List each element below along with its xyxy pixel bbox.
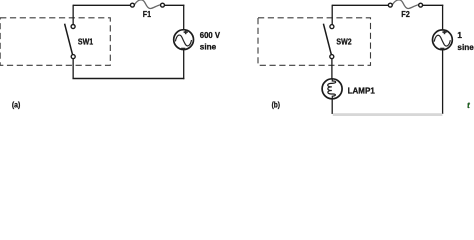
- lamp LAMP1 bulb circle: [322, 79, 342, 99]
- svg-text:F2: F2: [401, 9, 410, 19]
- dashed enclosure box (a): [0, 18, 110, 66]
- voltage source VG1 (600 V sine): [174, 30, 221, 52]
- source VG2 sine waveform symbol: [434, 35, 450, 46]
- wire top-left segment (a): [73, 4, 130, 6]
- wire right vertical to source top (a): [183, 5, 185, 30]
- wire SW2 bottom to lamp top: [331, 59, 333, 80]
- fuse F2 right terminal: [419, 3, 423, 7]
- wire bottom rail (a): [72, 78, 184, 80]
- switch SW2 blade (open): [323, 24, 331, 55]
- wire source bottom down to bottom (b): [442, 50, 444, 114]
- svg-text:sine: sine: [200, 42, 217, 52]
- fuse F1: [130, 0, 164, 19]
- switch SW2 bottom terminal: [330, 55, 334, 59]
- svg-text:(a): (a): [12, 100, 21, 109]
- wire right vertical to source top (b): [442, 5, 444, 31]
- source VG2 plus polarity mark: [442, 30, 446, 34]
- svg-text:(b): (b): [272, 100, 281, 109]
- svg-text:600 V: 600 V: [200, 30, 221, 40]
- wire lamp bottom down (b): [331, 99, 333, 114]
- wire top-right segment (a): [165, 4, 185, 6]
- svg-text:LAMP1: LAMP1: [348, 86, 376, 96]
- wire left vertical to SW2 (b): [331, 5, 333, 25]
- switch SW2 top terminal: [330, 25, 334, 29]
- svg-text:sine: sine: [457, 42, 474, 52]
- fuse F1 element curve: [134, 0, 160, 9]
- gray bottom band (b): [333, 113, 443, 116]
- svg-text:SW2: SW2: [336, 36, 352, 46]
- fuse F1 right terminal: [161, 3, 165, 7]
- svg-text:1: 1: [457, 30, 462, 40]
- switch SW1 blade (open): [65, 24, 73, 55]
- wire SW1 bottom to bottom rail: [72, 59, 74, 79]
- source VG1 minus polarity mark: [181, 48, 185, 50]
- lamp LAMP1 filament coil: [328, 79, 336, 99]
- fuse F2: [388, 0, 422, 19]
- wire source bottom to bottom rail (a): [183, 49, 185, 79]
- lamp LAMP1: [322, 79, 375, 99]
- source VG2 body circle: [433, 30, 453, 50]
- fuse F2 left terminal: [388, 3, 392, 7]
- switch SW2: [323, 24, 352, 59]
- switch SW1 bottom terminal: [71, 55, 75, 59]
- svg-text:t: t: [467, 101, 470, 110]
- svg-text:F1: F1: [143, 9, 152, 19]
- voltage source VG2 (1 sine): [433, 30, 474, 52]
- fuse F1 left terminal: [130, 3, 134, 7]
- source VG1 sine waveform symbol: [175, 35, 191, 46]
- source VG1 plus polarity mark: [184, 30, 188, 34]
- wire top-right segment (b): [423, 4, 444, 6]
- source VG1 body circle: [174, 30, 194, 50]
- svg-text:SW1: SW1: [78, 36, 94, 46]
- fuse F2 element curve: [392, 0, 418, 9]
- dashed enclosure box (b): [258, 18, 371, 66]
- wire top-left segment (b): [332, 4, 388, 6]
- wire left vertical to SW1 (a): [72, 5, 74, 25]
- switch SW1 top terminal: [71, 25, 75, 29]
- switch SW1: [65, 24, 94, 59]
- source VG2 minus polarity mark: [440, 48, 444, 50]
